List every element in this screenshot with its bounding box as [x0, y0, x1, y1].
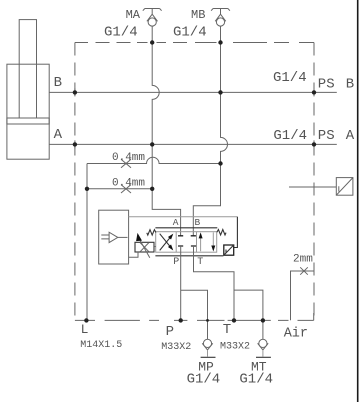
svg-text:P: P [166, 324, 174, 340]
svg-text:G1/4: G1/4 [104, 25, 138, 41]
svg-text:M14X1.5: M14X1.5 [80, 340, 122, 351]
svg-text:M33X2: M33X2 [161, 342, 191, 353]
svg-text:P: P [173, 257, 179, 268]
svg-text:G1/4: G1/4 [173, 25, 207, 41]
svg-text:PS: PS [318, 128, 335, 144]
svg-text:G1/4: G1/4 [273, 70, 307, 86]
svg-text:MA: MA [126, 8, 141, 22]
svg-text:G1/4: G1/4 [187, 372, 221, 388]
svg-text:A: A [54, 127, 63, 143]
svg-text:B: B [195, 217, 201, 228]
svg-text:0.4mm: 0.4mm [112, 177, 145, 189]
svg-text:A: A [346, 128, 355, 144]
svg-text:T: T [223, 322, 231, 338]
svg-text:Air: Air [284, 327, 308, 342]
svg-text:G1/4: G1/4 [239, 372, 273, 388]
svg-text:0.4mm: 0.4mm [112, 152, 145, 164]
svg-text:B: B [346, 76, 354, 92]
svg-text:G1/4: G1/4 [273, 128, 307, 144]
svg-text:MB: MB [191, 8, 205, 22]
svg-text:L: L [81, 322, 89, 337]
svg-text:PS: PS [318, 76, 335, 92]
svg-text:A: A [173, 217, 179, 228]
svg-text:M33X2: M33X2 [220, 342, 250, 353]
svg-text:B: B [54, 75, 62, 91]
svg-text:T: T [197, 257, 203, 268]
svg-text:2mm: 2mm [293, 254, 313, 266]
